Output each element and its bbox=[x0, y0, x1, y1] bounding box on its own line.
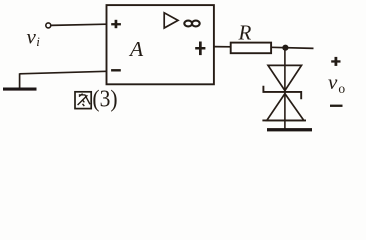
ground left bar bbox=[3, 88, 37, 91]
resistor R body bbox=[231, 43, 271, 54]
wire input vi bbox=[51, 24, 107, 25]
ground right bar bbox=[267, 128, 312, 131]
infinity symbol bbox=[184, 21, 192, 27]
svg-text:(3): (3) bbox=[92, 84, 117, 112]
wire resistor to output bbox=[271, 47, 314, 48]
op-amp triangle symbol bbox=[164, 13, 178, 28]
svg-text:o: o bbox=[338, 81, 345, 96]
label 图(3) glyph 图 bbox=[75, 92, 91, 109]
op-amp U1 box bbox=[107, 5, 214, 84]
pin - (inverting) bbox=[111, 69, 121, 71]
pin + (non-inverting) bbox=[111, 20, 121, 28]
zener cathode bar (shared, with bent ends) bbox=[263, 86, 301, 100]
zener diode D1 (top, pointing down) bbox=[268, 65, 302, 90]
wire junction down through diodes bbox=[284, 48, 286, 129]
zener diode D2 (bottom, pointing up) bbox=[267, 94, 304, 121]
terminal input bbox=[46, 23, 51, 28]
wire op-amp output to resistor bbox=[214, 46, 231, 48]
wire ground drop bbox=[19, 73, 21, 88]
output polarity - bbox=[330, 105, 343, 107]
svg-text:i: i bbox=[36, 34, 40, 49]
svg-text:R: R bbox=[238, 20, 252, 44]
label (3) bbox=[92, 84, 117, 112]
D2 anode bar bbox=[262, 119, 306, 121]
wire inverting input to ground bbox=[20, 71, 107, 74]
junction node dot bbox=[282, 45, 288, 51]
svg-text:v: v bbox=[328, 70, 338, 94]
svg-text:v: v bbox=[27, 25, 37, 49]
svg-text:A: A bbox=[128, 37, 144, 61]
output + (inside box) bbox=[195, 42, 205, 56]
output polarity + bbox=[331, 57, 340, 66]
